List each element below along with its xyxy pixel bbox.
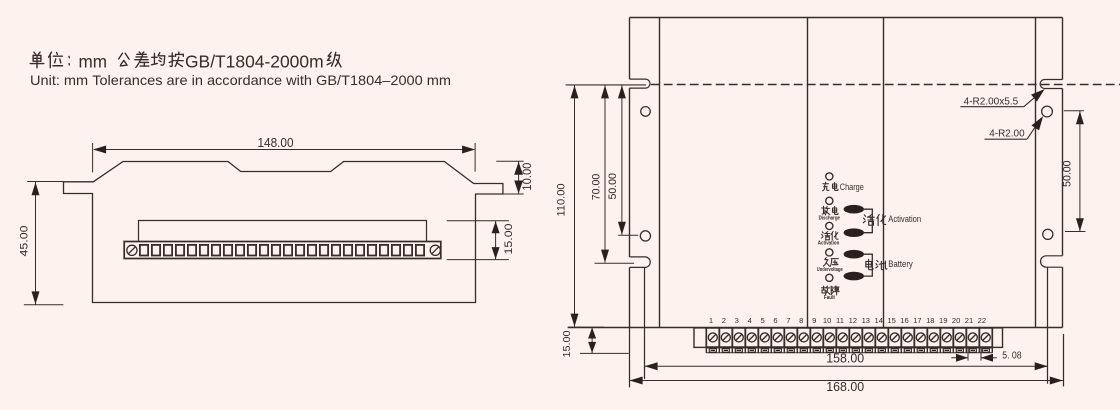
svg-text:17: 17 (913, 316, 921, 325)
svg-text:mm: mm (79, 51, 108, 71)
svg-text:8: 8 (799, 316, 803, 325)
svg-text:14: 14 (874, 316, 882, 325)
svg-text:18: 18 (926, 316, 934, 325)
svg-text:15.00: 15.00 (503, 224, 515, 255)
svg-text:16: 16 (900, 316, 908, 325)
svg-text:4-R2.00x5.5: 4-R2.00x5.5 (964, 97, 1019, 108)
svg-text:10.00: 10.00 (522, 163, 534, 191)
svg-text:Activation: Activation (818, 240, 840, 246)
svg-text:12: 12 (849, 316, 857, 325)
svg-text:Fault: Fault (824, 295, 835, 301)
svg-text:Charge: Charge (840, 182, 864, 192)
svg-text:148.00: 148.00 (258, 135, 294, 150)
svg-text:19: 19 (939, 316, 947, 325)
svg-text:4-R2.00: 4-R2.00 (989, 128, 1025, 139)
svg-text:45.00: 45.00 (19, 226, 31, 257)
svg-text:Battery: Battery (888, 259, 913, 269)
svg-text:20: 20 (952, 316, 960, 325)
svg-text:1: 1 (709, 316, 713, 325)
svg-text:15: 15 (887, 316, 895, 325)
svg-text:7: 7 (786, 316, 790, 325)
svg-text:Discharge: Discharge (819, 215, 840, 221)
svg-text:3: 3 (735, 316, 739, 325)
svg-text:21: 21 (965, 316, 973, 325)
svg-text:2: 2 (722, 316, 726, 325)
svg-text:Activation: Activation (888, 214, 921, 224)
svg-text:6: 6 (773, 316, 777, 325)
svg-text:Unit: mm Tolerances are in acc: Unit: mm Tolerances are in accordance wi… (30, 73, 451, 88)
svg-text:10: 10 (823, 316, 831, 325)
svg-text:11: 11 (836, 316, 844, 325)
svg-text:5. 08: 5. 08 (1002, 351, 1022, 362)
svg-text:4: 4 (748, 316, 752, 325)
svg-text:158.00: 158.00 (826, 352, 864, 366)
svg-text:15.00: 15.00 (561, 330, 573, 357)
svg-text:5: 5 (760, 316, 764, 325)
svg-text:22: 22 (978, 316, 986, 325)
svg-text:13: 13 (862, 316, 870, 325)
svg-text:110.00: 110.00 (556, 184, 568, 217)
svg-text:GB/T1804-2000m: GB/T1804-2000m (185, 51, 324, 71)
svg-text:50.00: 50.00 (607, 173, 619, 200)
svg-text:Undervoltage: Undervoltage (817, 267, 843, 273)
svg-text:50.00: 50.00 (1061, 160, 1073, 187)
svg-text:168.00: 168.00 (826, 380, 864, 394)
svg-text:70.00: 70.00 (591, 174, 603, 201)
svg-text:9: 9 (812, 316, 816, 325)
